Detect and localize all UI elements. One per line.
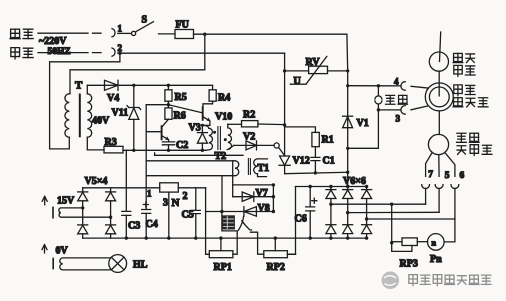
svg-text:T1: T1 bbox=[258, 163, 270, 174]
wire junction line left bbox=[146, 104, 168, 106]
wire phase vertical bbox=[346, 34, 349, 186]
wire top rail phase bbox=[194, 33, 347, 35]
svg-text:4: 4 bbox=[394, 77, 399, 87]
svg-text:n: n bbox=[432, 239, 437, 248]
fuse FU bbox=[175, 30, 194, 39]
wire neutral line bbox=[38, 52, 101, 54]
svg-text:6: 6 bbox=[460, 171, 465, 181]
transformer T2 left winding bbox=[202, 125, 212, 150]
node 15V winding top tap bbox=[81, 206, 84, 209]
wire neutral down-left to primary bottom bbox=[50, 53, 120, 149]
svg-text:R1: R1 bbox=[322, 135, 334, 146]
wire diagonal to V10 base bbox=[168, 105, 202, 113]
resistor R3 bbox=[104, 146, 123, 153]
bridge column 1 bbox=[330, 187, 332, 239]
transformer T1 left winding bbox=[235, 161, 239, 176]
svg-text:40V: 40V bbox=[92, 116, 110, 127]
svg-text:C6: C6 bbox=[295, 214, 307, 225]
wire left rail bbox=[233, 184, 274, 186]
0V winding bbox=[60, 258, 110, 270]
transformer T secondary 40V winding bbox=[87, 94, 91, 138]
svg-text:S: S bbox=[142, 15, 148, 26]
tick bbox=[52, 259, 54, 269]
svg-text:FU: FU bbox=[176, 20, 189, 31]
diode V2 bbox=[246, 141, 257, 150]
zener V11 bbox=[133, 85, 135, 150]
resistor R4 bbox=[209, 90, 216, 101]
resistor R5 bbox=[167, 85, 169, 108]
15V winding bbox=[59, 208, 111, 217]
svg-text:V11: V11 bbox=[112, 108, 129, 119]
svg-text:15V: 15V bbox=[57, 196, 75, 207]
svg-text:V8: V8 bbox=[258, 203, 270, 214]
capacitor C6 bbox=[309, 187, 311, 239]
svg-text:C3: C3 bbox=[128, 221, 140, 232]
label 中线 (neutral line) bbox=[11, 48, 20, 59]
node RV left bbox=[283, 69, 286, 72]
capacitor C2 bbox=[162, 142, 174, 145]
node neutral junction bbox=[118, 52, 121, 55]
wire V2 line bbox=[234, 144, 274, 146]
transformer T1 core bbox=[248, 159, 250, 175]
RP3 drop bbox=[391, 204, 393, 243]
wire R1 to C1 bbox=[314, 147, 316, 158]
wire phase line bbox=[38, 32, 101, 34]
transformer T1 right winding bbox=[254, 159, 258, 174]
tap lines to terminals bbox=[331, 203, 426, 205]
resistor R2 bbox=[242, 121, 258, 127]
svg-text:1: 1 bbox=[118, 24, 123, 34]
wire line C (T1 bottom lead) bbox=[146, 175, 235, 177]
svg-text:V4: V4 bbox=[107, 93, 119, 104]
svg-text:N: N bbox=[172, 197, 180, 209]
svg-text:RP1: RP1 bbox=[214, 262, 232, 273]
output pair hooks bbox=[377, 86, 379, 96]
diode V1 bbox=[343, 115, 353, 117]
wire neutral to RV drop bbox=[118, 52, 285, 54]
resistor R6 bbox=[165, 108, 172, 119]
wire V8 line bbox=[206, 211, 274, 213]
wire T2 to R2 bbox=[228, 123, 242, 125]
node left rail right end bbox=[272, 183, 275, 186]
bridge left drop to RP2 bbox=[287, 187, 295, 255]
wire output-3 down to V1 column bbox=[348, 110, 379, 148]
bridge top rail bbox=[296, 186, 367, 188]
node FU junction bbox=[203, 33, 206, 36]
wire V10 emitter to V3/T2 node bbox=[202, 124, 210, 126]
diode V7 bbox=[242, 192, 254, 201]
lamp HL bbox=[109, 255, 127, 273]
svg-text:2: 2 bbox=[183, 191, 188, 202]
clutch double circle bbox=[425, 83, 453, 111]
tacho generator circle bbox=[428, 134, 448, 154]
terminal 1 bbox=[112, 29, 115, 37]
thyristor V12 bbox=[280, 156, 290, 165]
wire vertical D bbox=[272, 185, 274, 212]
capacitor C3 bbox=[125, 150, 127, 238]
gate circle bbox=[274, 143, 279, 148]
node bridge column3 top bbox=[365, 185, 368, 188]
svg-text:V3: V3 bbox=[189, 123, 201, 134]
svg-text:V7: V7 bbox=[256, 188, 268, 199]
node R2/R1 junction bbox=[283, 123, 286, 126]
wire vertical 222 bbox=[221, 176, 223, 212]
svg-text:R2: R2 bbox=[243, 110, 255, 121]
shaft to tacho bbox=[438, 111, 440, 135]
svg-text:HL: HL bbox=[133, 260, 148, 271]
svg-text:V2: V2 bbox=[243, 132, 255, 143]
svg-text:RP2: RP2 bbox=[267, 262, 285, 273]
transistor V10 bbox=[202, 107, 204, 120]
drive motor circle bbox=[429, 52, 448, 71]
transformer T core bbox=[79, 95, 81, 137]
svg-text:U: U bbox=[294, 76, 301, 87]
node R5/R6 junction bbox=[167, 103, 170, 106]
potentiometer RP2 bbox=[264, 251, 288, 258]
arrow up bbox=[42, 245, 47, 253]
svg-text:RV: RV bbox=[306, 57, 321, 68]
wire output-4 line bbox=[348, 85, 401, 87]
svg-text:C2: C2 bbox=[176, 140, 188, 151]
svg-text:Pn: Pn bbox=[430, 254, 442, 265]
label 输出 bbox=[386, 95, 395, 104]
wire to switch bbox=[118, 32, 132, 34]
shaft into clutch bbox=[438, 71, 440, 96]
switch S bbox=[132, 31, 136, 35]
svg-text:V6×6: V6×6 bbox=[343, 176, 366, 187]
svg-text:3: 3 bbox=[163, 198, 168, 209]
svg-text:V5×4: V5×4 bbox=[85, 176, 108, 187]
svg-text:7: 7 bbox=[428, 170, 433, 180]
wire R4 bottom to V10 collector bbox=[203, 101, 213, 107]
wire R3 line bbox=[123, 149, 206, 151]
terminal cups 7 5 6 bbox=[422, 185, 430, 189]
svg-text:~220V: ~220V bbox=[39, 36, 67, 47]
wire switch to fuse bbox=[159, 33, 176, 35]
svg-text:R3: R3 bbox=[105, 137, 117, 148]
node R5 top bbox=[167, 84, 170, 87]
svg-text:C4: C4 bbox=[146, 219, 158, 230]
bridge column 3 bbox=[366, 187, 368, 239]
svg-text:V10: V10 bbox=[215, 112, 232, 123]
svg-text:R5: R5 bbox=[175, 92, 187, 103]
node V11 top bbox=[132, 84, 135, 87]
wire t6 down to Pn bbox=[444, 219, 455, 242]
terminal 2 bbox=[112, 48, 115, 56]
diode V4 bbox=[105, 80, 119, 90]
stamp 输 (input) bbox=[222, 215, 235, 229]
column 1 bbox=[82, 188, 84, 238]
wire vertical 205.6 to RP1 bbox=[206, 188, 210, 255]
wire neutral vertical bbox=[284, 53, 286, 156]
wire to R1 bbox=[285, 127, 316, 132]
column 2 bbox=[110, 188, 112, 238]
transformer T2 core bbox=[218, 127, 221, 150]
diode V8 bbox=[244, 207, 257, 217]
diode V3 bbox=[201, 125, 203, 150]
svg-text:R6: R6 bbox=[174, 111, 186, 122]
regulator N bbox=[160, 183, 179, 192]
wire main bottom rail bbox=[83, 237, 367, 239]
svg-text:3: 3 bbox=[396, 114, 401, 124]
svg-text:1: 1 bbox=[147, 189, 152, 199]
potentiometer RP1 bbox=[209, 251, 233, 258]
shaft top bbox=[440, 32, 441, 62]
meter Pn bbox=[428, 234, 445, 251]
wire line A' bbox=[155, 153, 243, 155]
wire FU junction down-left to transformer primary top bbox=[70, 34, 205, 94]
tick bbox=[52, 207, 54, 217]
wire V4 rail bbox=[87, 85, 212, 90]
svg-text:RP3: RP3 bbox=[400, 259, 418, 270]
varistor RV bbox=[285, 70, 348, 72]
tacho leads fan bbox=[426, 153, 432, 176]
wire vertical C (to V7) bbox=[232, 161, 234, 197]
socket 4 bbox=[401, 82, 405, 91]
svg-text:0V: 0V bbox=[56, 246, 69, 257]
wire bottom neutral rail bbox=[285, 172, 348, 173]
svg-text:50HZ: 50HZ bbox=[48, 47, 71, 57]
svg-text:C1: C1 bbox=[323, 156, 335, 167]
svg-text:V12: V12 bbox=[293, 156, 310, 167]
capacitor C5 bbox=[195, 188, 197, 238]
wire output-3 line bbox=[378, 109, 401, 111]
label 相线 (phase line) bbox=[10, 29, 20, 39]
wire line B (T1 top lead) bbox=[146, 160, 235, 162]
bridge column 2 bbox=[347, 187, 349, 239]
potentiometer RP3 bbox=[402, 238, 417, 246]
transformer T2 right winding bbox=[228, 124, 234, 149]
svg-text:V1: V1 bbox=[357, 118, 369, 129]
bridge V5 top rail bbox=[83, 187, 160, 189]
transistor Q (left, unlabeled) bbox=[161, 126, 163, 139]
wire secondary top lead bbox=[86, 85, 88, 94]
svg-text:R4: R4 bbox=[218, 93, 230, 104]
char 入 bbox=[238, 217, 251, 231]
svg-text:T: T bbox=[75, 80, 83, 92]
capacitor C1 bbox=[311, 157, 320, 160]
wire V7 line bbox=[233, 196, 274, 198]
transformer T primary winding bbox=[65, 94, 69, 138]
svg-text:C5: C5 bbox=[182, 210, 194, 221]
svg-text:5: 5 bbox=[445, 171, 450, 181]
wire secondary bottom lead to R3 bbox=[87, 137, 104, 150]
node V8 line right end bbox=[272, 210, 275, 213]
arrow up bbox=[42, 196, 47, 204]
svg-text:2: 2 bbox=[118, 43, 123, 53]
capacitor C4 bbox=[145, 105, 147, 238]
resistor R1 bbox=[312, 132, 319, 146]
wire R2 right bbox=[258, 123, 285, 126]
